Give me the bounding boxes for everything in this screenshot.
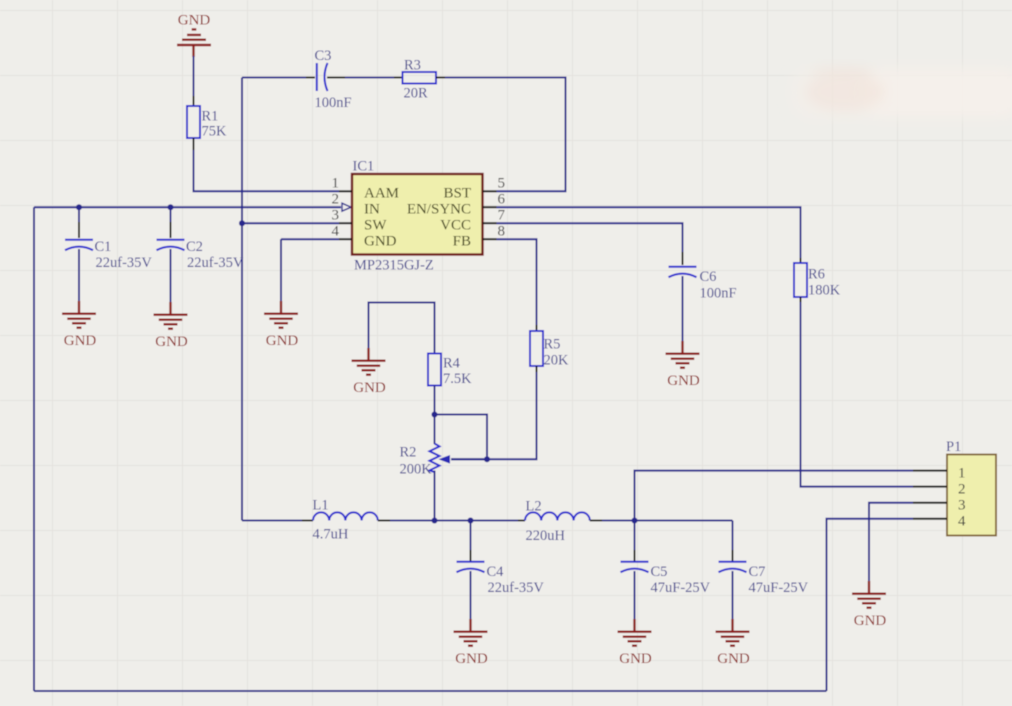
pin 1 AAM (339, 190, 352, 192)
svg-text:3: 3 (958, 498, 966, 514)
svg-text:IN: IN (364, 201, 380, 217)
wire R3 to BST pin5 (436, 77, 445, 79)
ground at P1 pin3 (852, 581, 886, 629)
ground at IC pin4 (264, 301, 298, 349)
capacitor C1 (78, 207, 80, 222)
svg-text:200K: 200K (400, 462, 433, 478)
svg-text:BST: BST (443, 186, 471, 202)
svg-text:3: 3 (332, 208, 340, 224)
svg-text:C4: C4 (487, 564, 505, 580)
svg-text:20K: 20K (544, 353, 570, 369)
wire SW node vertical (241, 78, 243, 521)
svg-text:7.5K: 7.5K (443, 371, 472, 387)
wire L2 to C5/C7 node (590, 520, 602, 522)
inductor L2 (518, 520, 525, 522)
capacitor C7 (719, 562, 747, 573)
svg-text:GND: GND (619, 651, 652, 667)
smudge (790, 66, 1012, 120)
wire C3 left (242, 77, 306, 79)
wire IN rail down left side (33, 207, 35, 691)
svg-text:VCC: VCC (440, 217, 471, 233)
pin 5 BST (483, 190, 497, 192)
svg-text:GND: GND (266, 333, 299, 349)
wire R1 to pin1 (193, 138, 195, 150)
wire IN rail (pin2) (34, 206, 341, 208)
ground at C6 (666, 341, 700, 389)
svg-text:C5: C5 (651, 564, 668, 580)
wire C1 to ground (78, 249, 80, 301)
junction C2 top (168, 204, 174, 210)
capacitor C4 (457, 562, 485, 573)
capacitor C5 (621, 562, 649, 573)
svg-text:6: 6 (498, 192, 506, 208)
wire C6 to ground (682, 276, 684, 341)
svg-text:47uF-25V: 47uF-25V (651, 580, 711, 596)
svg-text:L1: L1 (313, 498, 329, 514)
resistor R4 (428, 354, 441, 386)
P1 pin 2 (913, 486, 947, 488)
wire SW to L1 (242, 520, 302, 522)
svg-text:GND: GND (455, 651, 488, 667)
svg-text:GND: GND (178, 13, 211, 29)
wire FB to R5 (497, 239, 537, 325)
wire C5 to ground (634, 571, 636, 619)
svg-text:2: 2 (958, 482, 966, 498)
wire C7 to ground (732, 571, 734, 619)
junction C1 top (76, 204, 82, 210)
capacitor C3 (317, 63, 328, 91)
P1 pin 1 (913, 470, 947, 472)
wire R6 to P1 pin2 (800, 297, 802, 302)
svg-text:R3: R3 (404, 58, 421, 74)
svg-text:FB: FB (453, 233, 471, 249)
junction wiper (484, 456, 490, 462)
svg-text:47uF-25V: 47uF-25V (749, 580, 809, 596)
wire R5 to wiper line (536, 366, 538, 372)
wire SW (pin3) (242, 222, 339, 224)
svg-text:22uf-35V: 22uf-35V (187, 255, 244, 271)
svg-text:IC1: IC1 (353, 159, 375, 175)
junction C5 node (632, 518, 638, 524)
wire C5 stub (634, 521, 636, 551)
P1 pin 4 (913, 518, 947, 520)
svg-text:SW: SW (364, 217, 387, 233)
ground at R4 loop (352, 348, 386, 396)
svg-text:GND: GND (155, 334, 188, 350)
svg-text:MP2315GJ-Z: MP2315GJ-Z (354, 258, 434, 274)
wire C4 stub (470, 521, 472, 551)
wire C3 to R3 (327, 77, 345, 79)
wire R4 top loop (369, 303, 435, 354)
svg-text:C7: C7 (749, 564, 766, 580)
svg-text:L2: L2 (526, 499, 542, 515)
pin 7 VCC (483, 222, 497, 224)
svg-text:C3: C3 (315, 48, 332, 64)
svg-text:AAM: AAM (364, 186, 399, 202)
pin 4 GND (339, 238, 352, 240)
svg-text:22uf-35V: 22uf-35V (488, 580, 545, 596)
svg-text:5: 5 (498, 176, 506, 192)
P1 pin 3 (913, 502, 947, 504)
junction SW node (239, 220, 245, 226)
junction R2 bottom (432, 518, 438, 524)
svg-text:8: 8 (498, 224, 506, 240)
svg-text:EN/SYNC: EN/SYNC (407, 201, 471, 217)
svg-text:2: 2 (332, 192, 340, 208)
ground at C2 (154, 302, 188, 350)
capacitor C6 (669, 267, 697, 278)
pin 3 SW (339, 222, 352, 224)
wire C4 to ground (470, 571, 472, 619)
svg-text:220uH: 220uH (526, 528, 566, 544)
svg-text:GND: GND (64, 333, 97, 349)
wire L1 to out node (378, 520, 390, 522)
svg-text:7: 7 (498, 208, 506, 224)
ground at C1 (62, 301, 96, 349)
wire GND to R1 (193, 56, 195, 96)
junction R4/R2 (432, 412, 438, 418)
svg-text:R6: R6 (808, 267, 825, 283)
svg-text:GND: GND (353, 380, 386, 396)
connector P1 (946, 439, 996, 536)
wire P1 pin4 to bottom rail (827, 519, 914, 691)
svg-text:22uf-35V: 22uf-35V (96, 255, 153, 271)
svg-text:R5: R5 (544, 337, 561, 353)
ground at C5 (618, 619, 652, 667)
ground GND (top, at R1) (177, 13, 211, 58)
svg-text:4.7uH: 4.7uH (313, 527, 349, 543)
wire node up to P1 pin1 (635, 471, 914, 521)
inductor L1 (313, 512, 378, 520)
resistor R3 (403, 72, 437, 84)
svg-text:R2: R2 (400, 445, 417, 461)
svg-text:GND: GND (854, 613, 887, 629)
svg-text:1: 1 (958, 466, 966, 482)
svg-text:100nF: 100nF (315, 95, 352, 111)
arrow into IN pin (342, 203, 351, 211)
svg-text:GND: GND (364, 233, 397, 249)
wire P1 pin3 to ground (869, 503, 913, 581)
wire R4 to R2 top (434, 386, 436, 415)
wire bottom rail (34, 690, 827, 692)
pin 8 FB (483, 238, 497, 240)
capacitor C2 (170, 207, 172, 222)
ground at C7 (716, 619, 750, 667)
ground at C4 (454, 619, 488, 667)
svg-text:1: 1 (332, 176, 340, 192)
wire VCC to C6 (497, 223, 683, 252)
wire R2 bottom (434, 471, 436, 521)
wire R2 bypass loop (435, 415, 488, 460)
potentiometer R2 (400, 415, 488, 478)
wire EN/SYNC to R6 (497, 207, 801, 258)
wire C7 stub (732, 521, 734, 551)
op-amp IC1 MP2315GJ-Z (352, 159, 483, 274)
svg-text:C1: C1 (95, 239, 112, 255)
resistor R5 (530, 331, 543, 366)
junction C4 (468, 518, 474, 524)
svg-text:180K: 180K (808, 283, 841, 299)
svg-text:75K: 75K (202, 124, 228, 140)
svg-text:100nF: 100nF (700, 286, 737, 302)
svg-text:R1: R1 (202, 109, 219, 125)
pin 6 EN/SYNC (483, 206, 497, 208)
svg-text:4: 4 (332, 224, 340, 240)
resistor R1 (187, 106, 200, 138)
svg-text:4: 4 (958, 514, 966, 530)
wire C2 to ground (170, 249, 172, 302)
svg-text:GND: GND (667, 373, 700, 389)
resistor R6 (794, 263, 807, 297)
svg-text:GND: GND (717, 651, 750, 667)
svg-text:P1: P1 (946, 439, 961, 455)
svg-text:C6: C6 (700, 269, 717, 285)
wire GND pin4 (281, 238, 339, 240)
svg-text:20R: 20R (404, 86, 429, 102)
svg-text:C2: C2 (186, 239, 203, 255)
svg-text:R4: R4 (443, 356, 461, 372)
